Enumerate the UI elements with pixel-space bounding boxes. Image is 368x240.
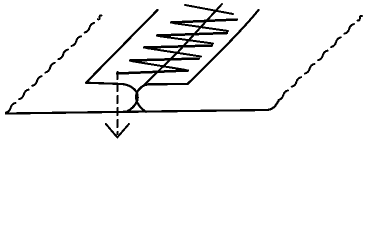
zigzag stitch forward stroke 5 bbox=[131, 61, 186, 70]
wavy dashed raw edge, right fabric piece bbox=[279, 16, 363, 100]
top flap left edge bbox=[86, 10, 158, 83]
zigzag stitch forward stroke 3 bbox=[158, 36, 213, 44]
zigzag stitch return stroke 5 (flap lower edge look) bbox=[117, 71, 188, 74]
pinch right curve and bottom edge right segment bbox=[136, 84, 187, 112]
top flap right edge bbox=[188, 10, 259, 84]
zigzag stitch forward stroke 2 bbox=[173, 23, 228, 31]
bottom fabric front edge (long horizontal) bbox=[6, 101, 278, 113]
zigzag stitch return stroke 4 bbox=[130, 59, 199, 61]
wavy dashed raw edge, left fabric piece bbox=[6, 15, 102, 112]
zigzag stitch forward stroke 1 bbox=[185, 5, 233, 14]
arrowhead bbox=[106, 124, 129, 137]
zigzag stitch return stroke 2 bbox=[157, 33, 227, 36]
zigzag stitch return stroke 1 bbox=[171, 20, 237, 23]
fold line through stitch (45 degrees) bbox=[139, 4, 222, 90]
dashed arrow shaft bbox=[117, 72, 119, 134]
top flap bottom edge, left segment into pinch bbox=[86, 83, 138, 112]
zigzag stitch forward stroke 4 bbox=[146, 48, 201, 57]
zigzag stitch return stroke 3 bbox=[144, 46, 212, 48]
